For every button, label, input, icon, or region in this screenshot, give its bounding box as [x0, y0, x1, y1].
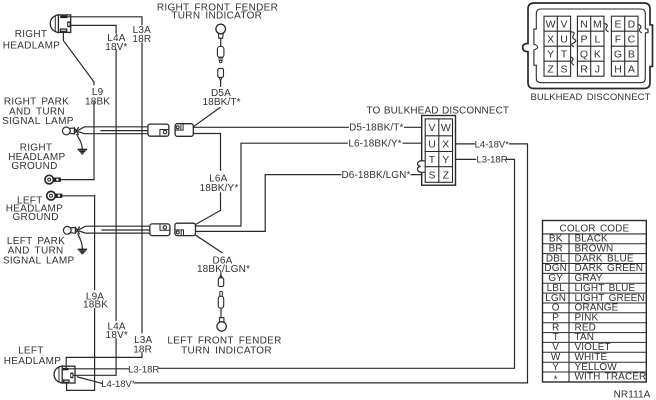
svg-text:TURN INDICATOR: TURN INDICATOR	[181, 345, 272, 356]
svg-text:P: P	[580, 34, 587, 46]
right headlamp	[50, 15, 71, 33]
svg-text:18BK/Y*: 18BK/Y*	[200, 183, 239, 194]
svg-text:18V*: 18V*	[105, 42, 127, 53]
svg-text:HEADLAMP: HEADLAMP	[3, 41, 60, 52]
label L3A 18R (top)	[132, 25, 151, 45]
svg-text:SIGNAL LAMP: SIGNAL LAMP	[3, 255, 75, 266]
wire L6 to bulkhead U	[196, 143, 422, 226]
ground (right park lamp)	[77, 135, 87, 155]
wire D6 to bulkhead S	[196, 175, 422, 232]
svg-text:N: N	[580, 19, 588, 31]
svg-text:LEFT: LEFT	[18, 345, 44, 356]
ground (left park lamp)	[78, 234, 87, 254]
svg-text:L4-18V*: L4-18V*	[101, 379, 136, 390]
left front fender turn indicator bulb	[217, 308, 226, 331]
bulkhead disconnect cavity grid 1 (W V / X U / Y T / Z S)	[544, 16, 571, 76]
svg-text:K: K	[594, 49, 601, 61]
svg-text:Y: Y	[547, 49, 554, 61]
svg-text:GROUND: GROUND	[12, 212, 58, 223]
label LEFT HEADLAMP GROUND	[6, 196, 63, 224]
svg-text:L4-18V*: L4-18V*	[475, 139, 510, 150]
svg-text:C: C	[628, 34, 636, 46]
bulkhead disconnect housing (engine side view)	[523, 3, 653, 89]
svg-text:D5-18BK/T*: D5-18BK/T*	[349, 122, 403, 133]
wire L3-18R from bulkhead Y to left headlamp	[69, 159, 515, 368]
label RIGHT FRONT FENDER TURN INDICATOR	[157, 3, 278, 22]
svg-text:D: D	[628, 19, 636, 31]
svg-text:V: V	[428, 122, 435, 134]
label LEFT FRONT FENDER TURN INDICATOR	[167, 336, 281, 357]
wire D6A (left park connector to left fender indicator)	[196, 235, 222, 276]
right front fender turn indicator bulb	[216, 24, 226, 46]
label RIGHT HEADLAMP	[3, 29, 60, 52]
svg-text:18V*: 18V*	[106, 330, 128, 341]
wire D5A (indicator to connector)	[193, 81, 220, 127]
label RIGHT HEADLAMP GROUND	[8, 143, 65, 173]
svg-text:W: W	[546, 19, 556, 31]
wire L9A (left headlamp ground lead)	[67, 196, 95, 391]
svg-text:18R: 18R	[133, 344, 152, 355]
wire D5 to bulkhead V	[193, 126, 421, 128]
svg-text:S: S	[428, 169, 435, 181]
svg-text:U: U	[428, 139, 436, 151]
svg-text:S: S	[560, 64, 567, 76]
label L6A 18BK/Y*	[200, 174, 239, 194]
svg-text:E: E	[614, 19, 621, 31]
connector (right park lamp, female half)	[148, 124, 169, 136]
wire L4-18V* from bulkhead X to left headlamp	[77, 144, 527, 384]
keying squiggle on grid 3 right at D row	[638, 24, 641, 32]
wire L9 (right headlamp ground lead)	[63, 32, 94, 180]
wire L4A (right headlamp low beam, daisy chain to left headlamp)	[71, 25, 116, 375]
bulkhead connector pin letters V W U X T Y S Z	[428, 122, 451, 181]
svg-text:T: T	[429, 154, 436, 166]
left headlamp	[54, 366, 75, 383]
svg-text:NR111A: NR111A	[614, 390, 651, 400]
right headlamp ground eyelet terminal	[45, 175, 94, 184]
svg-text:Z: Z	[443, 169, 450, 181]
svg-text:*: *	[554, 375, 558, 386]
svg-text:18BK/LGN*: 18BK/LGN*	[197, 264, 250, 275]
svg-text:W: W	[441, 122, 451, 134]
keying squiggle between grid 2 and 3	[604, 23, 608, 31]
svg-text:X: X	[547, 34, 554, 46]
label L9 18BK	[85, 87, 110, 107]
svg-text:M: M	[593, 19, 602, 31]
svg-text:WITH TRACER: WITH TRACER	[575, 372, 647, 383]
svg-text:L3-18R: L3-18R	[476, 154, 507, 165]
label L4A 18V* (top)	[105, 33, 127, 53]
svg-text:G: G	[614, 49, 622, 61]
svg-text:A: A	[628, 64, 635, 76]
wire L3A (right headlamp high beam, daisy chain to left headlamp)	[66, 17, 142, 368]
left front fender indicator plug connector	[218, 275, 223, 287]
svg-text:18R: 18R	[132, 34, 151, 45]
right park and turn signal lamp	[62, 127, 78, 135]
label L3A 18R (bottom)	[133, 335, 152, 355]
right park lamp pigtail harness	[78, 127, 148, 134]
svg-text:J: J	[595, 64, 600, 76]
svg-text:TURN INDICATOR: TURN INDICATOR	[171, 10, 262, 21]
svg-text:Z: Z	[547, 64, 554, 76]
svg-text:U: U	[560, 34, 568, 46]
svg-text:B: B	[628, 49, 635, 61]
color code table	[543, 221, 647, 383]
connector (right park lamp, male half)	[175, 124, 193, 137]
svg-text:RIGHT: RIGHT	[15, 29, 48, 40]
bulkhead disconnect pin letters	[546, 19, 636, 76]
label LEFT PARK AND TURN SIGNAL LAMP	[3, 236, 75, 266]
connector (left park lamp, male half)	[175, 223, 196, 235]
svg-text:T: T	[561, 49, 568, 61]
svg-text:H: H	[614, 64, 622, 76]
svg-text:Q: Q	[580, 49, 588, 61]
svg-text:18BK/T*: 18BK/T*	[202, 97, 240, 108]
svg-text:SIGNAL LAMP: SIGNAL LAMP	[2, 116, 74, 127]
svg-text:D6-18BK/LGN*: D6-18BK/LGN*	[341, 170, 410, 181]
label D6A 18BK/LGN*	[197, 255, 250, 275]
left park lamp pigtail harness	[79, 226, 150, 233]
wire L6A (right park connector to left park connector)	[193, 134, 220, 225]
connector (left park lamp, female half)	[150, 224, 170, 236]
right front fender indicator socket connector	[217, 47, 224, 63]
svg-text:BULKHEAD DISCONNECT: BULKHEAD DISCONNECT	[530, 92, 650, 103]
svg-text:V: V	[560, 19, 567, 31]
svg-text:18BK: 18BK	[83, 299, 108, 310]
label LEFT HEADLAMP	[4, 345, 61, 367]
label L4A 18V* (bottom)	[106, 321, 128, 341]
svg-text:L6-18BK/Y*: L6-18BK/Y*	[348, 139, 401, 150]
label L9A 18BK	[83, 292, 108, 311]
svg-text:Y: Y	[552, 362, 559, 373]
color code table text	[544, 223, 646, 385]
left headlamp ground eyelet terminal	[47, 191, 95, 200]
svg-text:R: R	[580, 64, 588, 76]
svg-text:18BK: 18BK	[85, 97, 110, 108]
svg-text:GROUND: GROUND	[11, 161, 57, 172]
label D5A 18BK/T*	[202, 88, 240, 108]
left front fender indicator socket connector	[218, 291, 223, 308]
left park and turn signal lamp	[63, 226, 79, 234]
svg-text:Y: Y	[442, 154, 449, 166]
right front fender indicator plug connector	[218, 68, 224, 80]
bulkhead disconnect cavity grid 3 (E D / F C / G B / H A)	[611, 16, 638, 76]
svg-text:F: F	[615, 34, 621, 46]
label RIGHT PARK AND TURN SIGNAL LAMP	[2, 97, 74, 127]
keying squiggle between grid 1 and 2	[571, 32, 576, 47]
svg-text:L: L	[594, 34, 600, 46]
svg-text:HEADLAMP: HEADLAMP	[4, 356, 61, 367]
svg-text:L3-18R: L3-18R	[128, 365, 159, 376]
bulkhead disconnect cavity grid 2 (N M / P L / Q K / R J)	[577, 16, 604, 76]
bulkhead connector keying squiggle	[417, 161, 424, 173]
keying squiggle on grid 1 right at T row	[571, 57, 574, 65]
bulkhead connector (harness side)	[422, 116, 456, 186]
svg-text:X: X	[442, 139, 449, 151]
